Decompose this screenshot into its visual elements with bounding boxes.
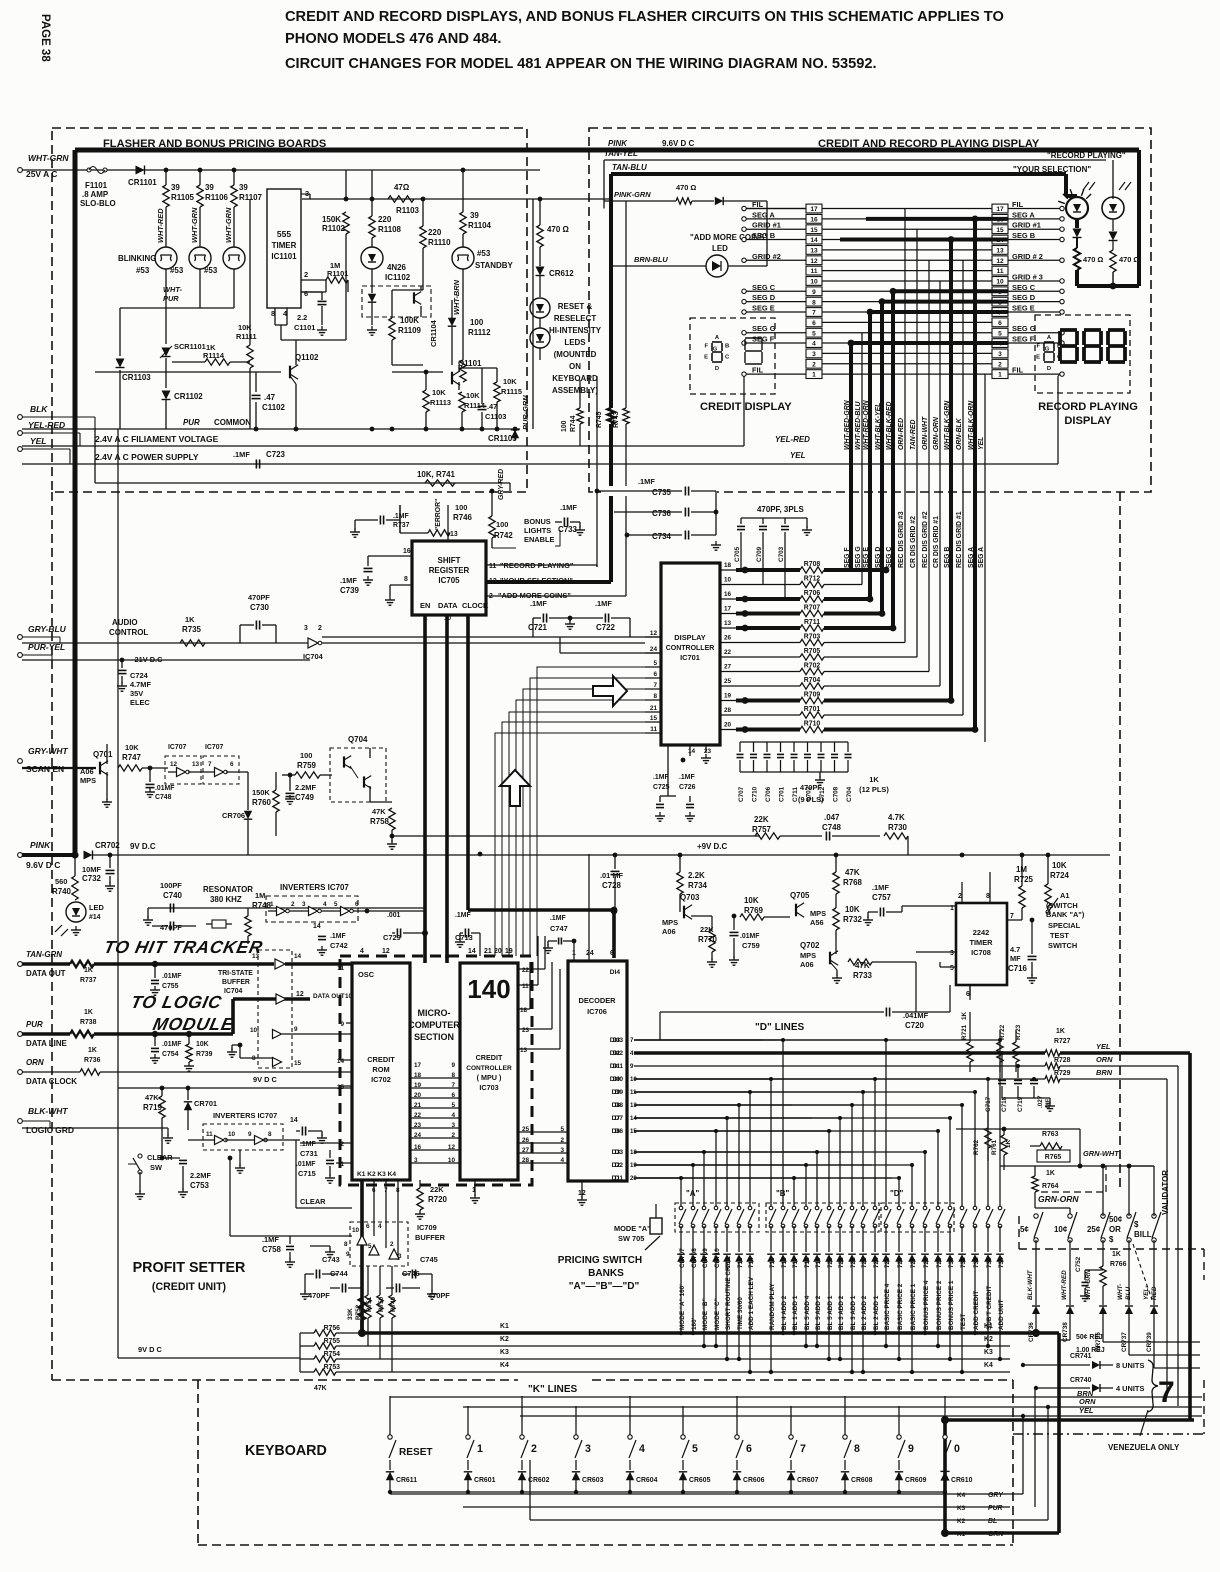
svg-text:BL 5 ADD 1: BL 5 ADD 1 <box>827 1295 834 1330</box>
svg-text:100PF: 100PF <box>160 881 182 890</box>
label K LINES <box>520 1380 590 1394</box>
svg-text:DATA: DATA <box>438 601 458 610</box>
svg-text:Q702: Q702 <box>800 941 820 950</box>
svg-text:MPS: MPS <box>662 918 678 927</box>
svg-text:GRY-WHT: GRY-WHT <box>28 746 68 756</box>
svg-text:724: 724 <box>873 1257 880 1268</box>
svg-text:BLU: BLU <box>1125 1287 1132 1300</box>
svg-text:"D" LINES: "D" LINES <box>755 1022 805 1033</box>
venezuela dashed <box>1013 1433 1204 1435</box>
svg-text:5: 5 <box>653 660 657 667</box>
svg-text:CR701: CR701 <box>194 1099 217 1108</box>
pricing switch column 722 BL 3 ADD 1 <box>634 1104 852 1106</box>
svg-text:R705: R705 <box>804 648 821 655</box>
keyboard key 7 diode CR607 <box>790 1406 792 1437</box>
svg-text:10¢: 10¢ <box>1054 1225 1068 1234</box>
svg-text:R712: R712 <box>804 576 821 583</box>
svg-text:PUR: PUR <box>183 418 200 427</box>
svg-text:3: 3 <box>304 625 308 632</box>
wire display bus WHT-RED-BLU <box>861 333 863 585</box>
svg-text:728: 728 <box>923 1257 930 1268</box>
svg-text:CONTROLLER: CONTROLLER <box>466 1065 512 1072</box>
svg-text:18: 18 <box>724 562 732 569</box>
svg-text:R757: R757 <box>752 825 772 834</box>
flasher and bonus pricing boards boundary <box>52 128 527 492</box>
svg-text:470PF: 470PF <box>248 593 270 602</box>
svg-text:21: 21 <box>484 948 492 955</box>
wire display bus WHT-BLK-GRN <box>949 240 953 701</box>
record display pin ladder <box>992 370 1008 379</box>
svg-text:AUDIO: AUDIO <box>112 618 138 627</box>
svg-text:MF: MF <box>1010 954 1021 963</box>
svg-text:50¢: 50¢ <box>1109 1215 1123 1224</box>
svg-text:.1MF: .1MF <box>550 915 566 922</box>
svg-text:TAN-GRN: TAN-GRN <box>26 950 62 959</box>
svg-text:R765: R765 <box>1045 1154 1062 1161</box>
credit digit outline <box>745 337 762 339</box>
svg-text:39: 39 <box>470 211 479 220</box>
svg-text:.1MF: .1MF <box>530 599 547 608</box>
resistor R764 1K <box>1032 1176 1038 1192</box>
pricing switch column 715 RANDOM PLAY <box>634 1078 771 1080</box>
keyboard key 4 diode CR604 <box>629 1396 631 1437</box>
IC708 pin wires <box>961 882 963 903</box>
svg-text:CR707: CR707 <box>679 1248 686 1268</box>
svg-text:"K" LINES: "K" LINES <box>528 1384 578 1395</box>
svg-text:9.6V D C: 9.6V D C <box>26 860 60 870</box>
svg-text:BL 3 ADD 1: BL 3 ADD 1 <box>850 1295 857 1330</box>
svg-text:9V D.C: 9V D.C <box>130 842 156 851</box>
svg-text:15: 15 <box>996 227 1004 234</box>
svg-text:.1MF: .1MF <box>653 774 669 781</box>
svg-text:R1112: R1112 <box>468 328 491 337</box>
svg-text:C735: C735 <box>652 488 672 497</box>
svg-text:11: 11 <box>489 563 496 570</box>
svg-text:SEG F: SEG F <box>1012 335 1035 344</box>
svg-text:470PF, 3PLS: 470PF, 3PLS <box>757 505 804 514</box>
svg-text:2: 2 <box>291 901 295 908</box>
wire YEL bus <box>984 374 986 742</box>
svg-text:R1115: R1115 <box>501 387 522 396</box>
svg-text:SPECIAL: SPECIAL <box>1048 921 1081 930</box>
svg-text:BL 1 ADD 1: BL 1 ADD 1 <box>792 1295 799 1330</box>
wire K3 row <box>336 1358 1010 1360</box>
buffer gates extra <box>273 1030 282 1039</box>
svg-text:4: 4 <box>360 948 364 955</box>
svg-text:1K: 1K <box>1112 1251 1121 1258</box>
svg-text:18: 18 <box>520 1007 528 1014</box>
svg-text:REC DIS GRID #2: REC DIS GRID #2 <box>922 511 929 568</box>
svg-text:IC707: IC707 <box>205 744 224 751</box>
svg-text:R724: R724 <box>1050 871 1070 880</box>
svg-text:BUFFER: BUFFER <box>222 979 250 986</box>
svg-text:ADD UNIT: ADD UNIT <box>998 1300 1005 1330</box>
svg-text:R740: R740 <box>52 887 72 896</box>
svg-text:CLOCK: CLOCK <box>462 601 489 610</box>
svg-text:.01MF: .01MF <box>740 933 759 940</box>
wire D10 row to R729 <box>634 1078 1045 1080</box>
terminal ORN data clock <box>18 1070 23 1075</box>
svg-text:+9V D.C: +9V D.C <box>697 842 727 851</box>
resistor R1115 10K <box>494 382 500 402</box>
svg-text:SEG A: SEG A <box>1012 210 1035 219</box>
pricing switch column 716 BL 4 ADD 2 <box>634 1039 783 1041</box>
svg-text:BL 5 ADD 4: BL 5 ADD 4 <box>804 1295 811 1330</box>
svg-text:PUR-YEL: PUR-YEL <box>28 642 65 652</box>
svg-text:WHT-GRN: WHT-GRN <box>1085 1269 1092 1300</box>
pricing switch column 733 SUB'T CREDIT <box>634 1078 988 1080</box>
svg-text:CR1103: CR1103 <box>122 373 151 382</box>
wire DATA CLOCK with R736 <box>22 1071 80 1073</box>
svg-text:C749: C749 <box>295 793 315 802</box>
svg-text:3: 3 <box>585 1443 591 1455</box>
svg-text:CR607: CR607 <box>797 1477 819 1484</box>
svg-text:D2: D2 <box>612 1162 621 1169</box>
wire SEG A thick <box>866 217 1008 221</box>
svg-text:R702: R702 <box>804 663 821 670</box>
wire SEG F thick <box>851 341 1008 345</box>
IC706 decoder <box>568 961 627 1181</box>
wire thick venezuela loop <box>941 1416 949 1424</box>
wire coin switch drops <box>1035 1240 1037 1305</box>
svg-text:COMMON: COMMON <box>214 418 251 427</box>
svg-text:6: 6 <box>812 320 816 327</box>
svg-text:R1113: R1113 <box>430 398 451 407</box>
credit ladder terminals and labels <box>742 206 746 210</box>
keyboard key 6 diode CR606 <box>736 1396 738 1437</box>
svg-text:BASIC PRICE 2: BASIC PRICE 2 <box>897 1283 904 1330</box>
keyboard key 3 diode CR603 <box>575 1406 577 1437</box>
svg-text:YEL: YEL <box>790 451 806 460</box>
svg-text:470 Ω: 470 Ω <box>1119 255 1139 264</box>
svg-text:100: 100 <box>455 503 467 512</box>
svg-text:4.7: 4.7 <box>1010 945 1020 954</box>
svg-text:R762: R762 <box>973 1139 980 1155</box>
svg-text:LEDS: LEDS <box>564 338 585 347</box>
svg-text:SEG E: SEG E <box>863 547 870 568</box>
wire keyboard top bus BRN <box>390 1396 1202 1398</box>
svg-text:50¢ REJ: 50¢ REJ <box>1076 1334 1103 1341</box>
diode CR1102 <box>162 391 171 400</box>
svg-text:IC705: IC705 <box>438 576 460 585</box>
svg-text:(12 PLS): (12 PLS) <box>859 785 889 794</box>
svg-text:FIL: FIL <box>752 200 764 209</box>
svg-text:DATA LINE: DATA LINE <box>26 1039 67 1048</box>
wire K1 thick row <box>336 1332 362 1334</box>
svg-text:2.2MF: 2.2MF <box>190 1171 211 1180</box>
svg-text:CREDIT AND RECORD DISPLAYS, AN: CREDIT AND RECORD DISPLAYS, AND BONUS FL… <box>285 9 1004 25</box>
svg-text:R746: R746 <box>453 513 473 522</box>
pricing switch column 718 BL 5 ADD 4 <box>634 1164 806 1166</box>
svg-text:INVERTERS IC707: INVERTERS IC707 <box>213 1111 277 1120</box>
ground ic709 <box>310 1245 330 1247</box>
svg-text:DI0: DI0 <box>610 1076 621 1083</box>
credit and record playing display boundary <box>589 128 1151 492</box>
svg-text:14: 14 <box>688 748 696 755</box>
wire CR737 down <box>1128 1314 1130 1355</box>
wire K2 row <box>336 1345 1010 1347</box>
svg-text:BL 4 ADD 2: BL 4 ADD 2 <box>781 1295 788 1330</box>
svg-text:729: 729 <box>936 1257 943 1268</box>
svg-text:D8: D8 <box>612 1102 621 1109</box>
fuse F1101 <box>87 168 91 172</box>
pricing switch column 727 BASIC PRICE 1 <box>634 1164 912 1166</box>
svg-text:10K: 10K <box>196 1041 209 1048</box>
terminal YEL-RED 2.4VAC <box>18 431 23 436</box>
svg-text:16: 16 <box>810 216 818 223</box>
LED lamp (R1108 branch) <box>361 247 383 269</box>
svg-text:15: 15 <box>810 227 818 234</box>
svg-text:ORN: ORN <box>1096 1055 1113 1064</box>
svg-text:.1MF: .1MF <box>455 912 471 919</box>
credit display 7-seg box <box>690 318 775 394</box>
svg-text:220: 220 <box>428 228 442 237</box>
pricing switch column 724 BL 2 ADD 1 <box>634 1078 875 1080</box>
svg-text:SEG C: SEG C <box>1012 283 1036 292</box>
svg-text:ASSEMBLY): ASSEMBLY) <box>552 386 598 395</box>
diode pink-grn <box>715 197 723 205</box>
diode lamp2 cathode <box>1112 219 1114 231</box>
svg-text:PUR: PUR <box>163 294 179 303</box>
svg-text:K4: K4 <box>957 1492 966 1499</box>
pricing switch column 712 SHORT ROUTINE CR711 <box>634 1117 727 1119</box>
svg-text:9: 9 <box>294 1026 298 1033</box>
svg-text:R727: R727 <box>1054 1038 1071 1045</box>
svg-text:11: 11 <box>997 268 1004 275</box>
capacitor C723 .1MF <box>255 460 257 469</box>
svg-text:15: 15 <box>294 1060 302 1067</box>
svg-text:2.2: 2.2 <box>297 313 307 322</box>
svg-text:10: 10 <box>228 1131 236 1138</box>
svg-text:WHT-RED-GRN: WHT-RED-GRN <box>844 399 851 450</box>
svg-text:C748: C748 <box>822 823 842 832</box>
svg-text:R711: R711 <box>804 619 820 626</box>
svg-text:100: 100 <box>561 420 568 432</box>
svg-text:WHT-BRN: WHT-BRN <box>452 279 461 315</box>
svg-text:C705: C705 <box>734 546 741 562</box>
svg-text:YEL-RED: YEL-RED <box>28 420 65 430</box>
svg-text:.01MF: .01MF <box>162 1041 181 1048</box>
svg-text:11: 11 <box>650 726 657 733</box>
svg-text:SEG D: SEG D <box>875 547 882 568</box>
diode CR701 <box>186 1086 191 1091</box>
svg-text:PUR-GRN: PUR-GRN <box>521 395 530 430</box>
pricing switch column 714 ADD 1 EACH LEV <box>634 1091 750 1093</box>
svg-text:220: 220 <box>378 215 392 224</box>
svg-text:TIME 30/60: TIME 30/60 <box>737 1297 744 1330</box>
svg-text:HI-INTENSITY: HI-INTENSITY <box>549 326 602 335</box>
svg-text:YEL-RED: YEL-RED <box>775 435 810 444</box>
svg-text:R761: R761 <box>991 1139 998 1155</box>
wire q702 join row <box>915 962 917 1012</box>
svg-text:D1: D1 <box>612 1175 621 1182</box>
wire SEG D thick <box>882 300 1008 304</box>
svg-text:R768: R768 <box>843 878 863 887</box>
svg-text:10K, R741: 10K, R741 <box>417 470 456 479</box>
svg-text:C757: C757 <box>872 893 892 902</box>
svg-text:MODE "A": MODE "A" <box>614 1224 651 1233</box>
svg-text:R743: R743 <box>613 411 620 428</box>
svg-text:C755: C755 <box>162 983 179 990</box>
svg-text:R736: R736 <box>84 1057 101 1064</box>
svg-text:RANDOM PLAY: RANDOM PLAY <box>769 1282 776 1330</box>
svg-text:K1 K2 K3 K4: K1 K2 K3 K4 <box>357 1171 396 1178</box>
svg-text:C722: C722 <box>596 623 616 632</box>
svg-text:14: 14 <box>294 953 302 960</box>
svg-text:R721: R721 <box>961 1024 968 1040</box>
keyboard key 8 diode CR608 <box>844 1396 846 1437</box>
resistor R744 100 <box>579 380 581 408</box>
svg-text:726: 726 <box>897 1257 904 1268</box>
svg-text:D9: D9 <box>612 1089 621 1096</box>
svg-text:6: 6 <box>355 901 359 908</box>
svg-text:1M: 1M <box>255 891 265 900</box>
svg-text:0: 0 <box>954 1443 960 1455</box>
svg-text:YEL-: YEL- <box>1143 1286 1150 1301</box>
svg-text:100: 100 <box>300 751 312 760</box>
diode lamp1 cathode <box>1075 219 1079 228</box>
svg-text:K3: K3 <box>957 1505 966 1512</box>
svg-text:R760: R760 <box>252 798 272 807</box>
svg-text:140: 140 <box>467 974 510 1004</box>
svg-text:10K: 10K <box>1052 861 1067 870</box>
svg-text:CR708: CR708 <box>691 1248 698 1268</box>
svg-text:C742: C742 <box>330 941 348 950</box>
svg-text:C709: C709 <box>756 546 763 562</box>
buffer data out <box>275 959 285 969</box>
svg-text:R709: R709 <box>804 692 821 699</box>
svg-text:CR1101: CR1101 <box>128 178 157 187</box>
svg-text:R739: R739 <box>196 1051 213 1058</box>
svg-text:SCR1101: SCR1101 <box>174 342 206 351</box>
svg-text:BANKS: BANKS <box>588 1268 624 1279</box>
svg-text:K2: K2 <box>957 1518 966 1525</box>
diode inside 4N26 branch <box>368 294 376 302</box>
svg-text:PROFIT SETTER: PROFIT SETTER <box>133 1260 246 1276</box>
svg-text:13: 13 <box>724 620 732 627</box>
svg-text:9V D C: 9V D C <box>138 1345 163 1354</box>
svg-text:470 Ω: 470 Ω <box>547 225 569 234</box>
svg-text:1K: 1K <box>185 615 195 624</box>
svg-text:25¢: 25¢ <box>1087 1225 1101 1234</box>
svg-text:WHT-RED-ORN: WHT-RED-ORN <box>863 399 870 450</box>
caps C707-C704 row 470PF 9PLS <box>739 742 741 752</box>
svg-text:9: 9 <box>248 1131 252 1138</box>
svg-text:DI2: DI2 <box>610 1050 621 1057</box>
svg-text:39: 39 <box>239 183 248 192</box>
svg-text:7: 7 <box>630 1037 634 1044</box>
svg-text:ORN: ORN <box>26 1058 44 1067</box>
svg-text:KEYBOARD: KEYBOARD <box>245 1443 327 1459</box>
svg-text:4: 4 <box>378 1223 382 1230</box>
svg-text:IC704: IC704 <box>303 652 324 661</box>
svg-text:R1105: R1105 <box>171 193 195 202</box>
svg-text:.1MF: .1MF <box>679 774 695 781</box>
wire display bus WHT-BLK-RED <box>891 291 895 628</box>
svg-text:C734: C734 <box>652 532 672 541</box>
svg-text:1: 1 <box>998 372 1002 379</box>
svg-text:WHT-: WHT- <box>1117 1284 1124 1300</box>
lamp YOUR SELECTION wire <box>1064 174 1068 196</box>
keyboard boundary dashed <box>52 1379 518 1381</box>
svg-text:2242: 2242 <box>973 928 989 937</box>
svg-text:K1: K1 <box>957 1531 966 1538</box>
svg-text:BONUS: BONUS <box>524 517 551 526</box>
svg-text:OSC: OSC <box>358 970 375 979</box>
resistor R1114b 10K <box>459 392 465 412</box>
svg-text:BASIC PRICE 1: BASIC PRICE 1 <box>910 1283 917 1330</box>
svg-text:2: 2 <box>998 361 1002 368</box>
svg-text:#53: #53 <box>170 266 184 275</box>
svg-text:2.4V A C POWER SUPPLY: 2.4V A C POWER SUPPLY <box>95 452 199 462</box>
svg-text:R758: R758 <box>370 817 390 826</box>
svg-text:Q703: Q703 <box>680 893 700 902</box>
IC701 display controller <box>661 563 720 745</box>
svg-text:715: 715 <box>769 1257 776 1268</box>
svg-text:CREDIT DISPLAY: CREDIT DISPLAY <box>700 401 792 413</box>
svg-text:16: 16 <box>724 591 732 598</box>
svg-text:6: 6 <box>746 1443 752 1455</box>
svg-text:BLK-WHT: BLK-WHT <box>28 1106 68 1116</box>
wire lamp to common <box>233 269 235 308</box>
svg-text:2: 2 <box>340 1141 344 1148</box>
svg-text:CR612: CR612 <box>549 269 574 278</box>
lamp #53 (R1107 branch) <box>223 247 245 269</box>
svg-text:.047: .047 <box>824 813 840 822</box>
svg-text:(CREDIT UNIT): (CREDIT UNIT) <box>152 1281 226 1293</box>
svg-text:C746: C746 <box>402 1269 420 1278</box>
svg-text:24: 24 <box>650 646 658 653</box>
svg-text:D3: D3 <box>612 1149 621 1156</box>
svg-text:C720: C720 <box>905 1021 925 1030</box>
svg-text:BONUS PRICE 2: BONUS PRICE 2 <box>936 1280 943 1330</box>
svg-text:733: 733 <box>986 1257 993 1268</box>
svg-text:SEG E: SEG E <box>752 304 775 313</box>
svg-text:470 Ω: 470 Ω <box>676 183 696 192</box>
svg-text:.1MF: .1MF <box>330 933 346 940</box>
svg-text:14: 14 <box>313 923 321 930</box>
svg-text:MPS: MPS <box>810 909 826 918</box>
svg-text:Q701: Q701 <box>93 750 113 759</box>
svg-text:35V: 35V <box>130 689 143 698</box>
svg-text:R720: R720 <box>428 1195 448 1204</box>
svg-text:TO LOGIC: TO LOGIC <box>129 992 224 1012</box>
svg-text:SEG G: SEG G <box>855 546 862 568</box>
lamp your selection <box>1066 197 1088 219</box>
svg-text:R1104: R1104 <box>468 221 492 230</box>
svg-text:TIMER: TIMER <box>272 241 297 250</box>
ground inverter lower <box>239 1150 241 1166</box>
svg-text:EN: EN <box>420 601 430 610</box>
svg-text:SECTION: SECTION <box>414 1032 454 1042</box>
svg-text:SEG B: SEG B <box>1012 231 1036 240</box>
svg-text:CR740: CR740 <box>1070 1377 1092 1384</box>
svg-text:PUR: PUR <box>988 1505 1003 1512</box>
diodes CR736 CR738 CR735 CR737 CR739 <box>1032 1306 1040 1314</box>
svg-text:R1114: R1114 <box>203 351 225 360</box>
wire row y836 <box>392 835 760 837</box>
svg-text:22K: 22K <box>430 1185 444 1194</box>
svg-text:WHT-GRN: WHT-GRN <box>190 207 199 243</box>
diode CR1103 <box>116 359 125 368</box>
svg-text:"RECORD PLAYING": "RECORD PLAYING" <box>500 561 574 570</box>
capacitor C715 .01MF <box>326 1159 334 1161</box>
svg-text:RESELECT: RESELECT <box>554 314 596 323</box>
svg-text:PINK: PINK <box>608 139 628 148</box>
capacitor C739 .1MF <box>367 556 369 566</box>
svg-text:Q1102: Q1102 <box>295 353 319 362</box>
capacitor C1103 .47 <box>478 405 487 407</box>
